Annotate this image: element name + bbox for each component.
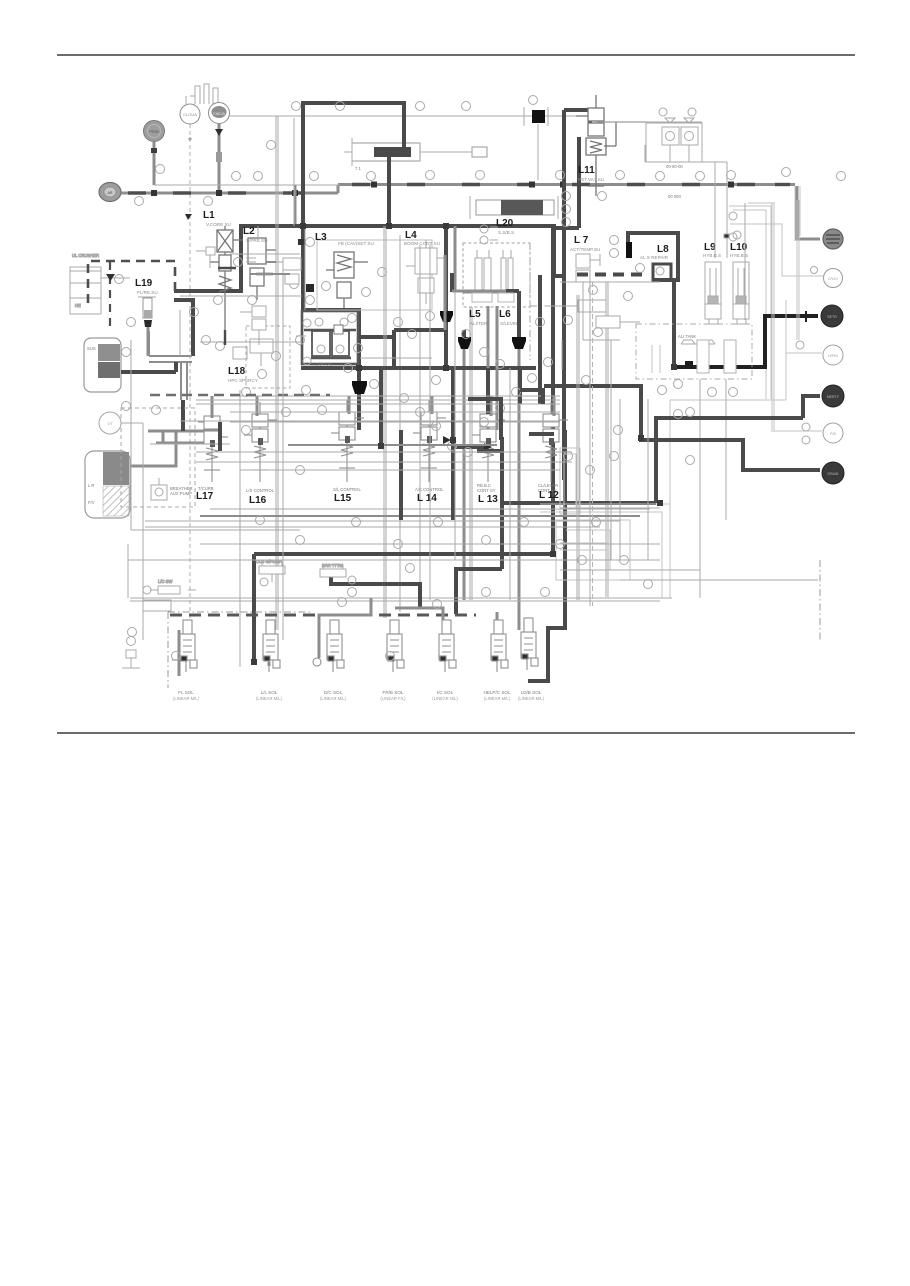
L15 column bbox=[331, 400, 364, 482]
pilot line y185 bbox=[154, 184, 340, 186]
L20 block bbox=[470, 196, 558, 244]
L13 side feeds bbox=[453, 445, 484, 449]
L19 pilot dashed drop bbox=[109, 262, 111, 332]
svg-text:L/C SW: L/C SW bbox=[158, 579, 172, 584]
main supply line y193 bbox=[121, 182, 795, 197]
gray manifold cluster bbox=[148, 420, 220, 443]
svg-text:L R: L R bbox=[88, 483, 94, 488]
drain circle dark bbox=[822, 462, 844, 484]
center wire mesh thin bbox=[143, 118, 726, 667]
svg-text:SUS: SUS bbox=[87, 346, 96, 351]
dash-dot boundary center bbox=[529, 243, 531, 360]
wire cylinder band drop bbox=[387, 153, 391, 225]
gray collector y445 bbox=[288, 444, 497, 446]
pump circle AR left bbox=[99, 183, 121, 202]
cv circle bbox=[730, 224, 843, 288]
svg-text:ACT/TEMP.SU: ACT/TEMP.SU bbox=[570, 247, 600, 252]
svg-text:AL.S REPAIR: AL.S REPAIR bbox=[640, 255, 669, 260]
L11 thick risers bbox=[562, 110, 566, 480]
junction dots bbox=[251, 223, 677, 665]
svg-text:FB (CAV)SET SU: FB (CAV)SET SU bbox=[338, 241, 374, 246]
thin vertical pairs center-right bbox=[577, 282, 611, 606]
wire CLOUA dashed drop bbox=[189, 124, 191, 618]
gray feeder staircases bbox=[179, 598, 519, 676]
svg-text:FL SOL: FL SOL bbox=[178, 690, 194, 695]
svg-text:L11: L11 bbox=[578, 165, 595, 176]
nested corner rects bottom right bbox=[540, 504, 670, 598]
svg-text:AR: AR bbox=[108, 191, 113, 195]
wire to setr circle bbox=[674, 316, 818, 367]
wire L8 down bbox=[672, 280, 676, 367]
bank enclosure bbox=[131, 340, 560, 530]
wire tank2 out bbox=[130, 431, 176, 466]
top pilot line B y117 bbox=[229, 116, 588, 212]
upper tank SUS bbox=[84, 338, 121, 392]
solenoid DC bbox=[313, 620, 344, 672]
svg-text:(LINEAR M/L): (LINEAR M/L) bbox=[484, 696, 511, 701]
svg-text:L 12: L 12 bbox=[539, 490, 559, 501]
lower tank LR bbox=[85, 451, 130, 518]
wire dark bottom main bbox=[254, 552, 553, 556]
svg-text:S.S/B.S: S.S/B.S bbox=[498, 230, 514, 235]
svg-text:AUX PUMP: AUX PUMP bbox=[170, 491, 192, 496]
svg-text:CLOUA: CLOUA bbox=[183, 112, 197, 117]
svg-text:L9: L9 bbox=[704, 242, 716, 253]
svg-text:L2: L2 bbox=[243, 226, 255, 237]
right thin enclosure bbox=[670, 200, 799, 560]
cap blob 2 bbox=[462, 330, 466, 337]
breather box bbox=[151, 478, 167, 500]
solenoid IC bbox=[439, 620, 456, 672]
grease circle bbox=[823, 229, 843, 249]
gray pipe pair left bbox=[149, 331, 192, 400]
svg-text:I/C SOL: I/C SOL bbox=[437, 690, 454, 695]
L7 thick dashed run bbox=[577, 273, 648, 277]
L2 valve column bbox=[248, 238, 276, 300]
L13 column bbox=[472, 402, 505, 482]
svg-text:L 7: L 7 bbox=[574, 235, 589, 246]
svg-text:MERT.F: MERT.F bbox=[827, 395, 840, 399]
column dark details bbox=[210, 436, 554, 447]
L13 dark feeder bbox=[486, 368, 490, 414]
wire header corner right bbox=[554, 229, 564, 276]
thick cross y330 bbox=[394, 330, 447, 368]
wire tank to header bbox=[121, 362, 176, 372]
wire PRB stem bbox=[153, 142, 156, 185]
wire center drop x303 to x359 bbox=[303, 310, 359, 368]
svg-text:PR/B: PR/B bbox=[149, 129, 159, 134]
accumulator L6 bbox=[501, 250, 513, 302]
svg-text:L4: L4 bbox=[405, 230, 417, 241]
svg-text:P/B: P/B bbox=[830, 432, 836, 436]
boom cylinder bbox=[344, 138, 487, 171]
crusher piping squiggle bbox=[186, 84, 218, 106]
svg-text:(LINEAR M/L): (LINEAR M/L) bbox=[173, 696, 200, 701]
mertf circle dark bbox=[822, 385, 844, 407]
svg-text:HYB.B.S: HYB.B.S bbox=[703, 253, 721, 258]
bottom dashed main bbox=[170, 614, 476, 617]
L17 dashed enclosure bbox=[121, 408, 195, 507]
pump circle CHEJA bbox=[209, 103, 230, 124]
solenoid FRB bbox=[387, 620, 404, 672]
svg-text:H/P.IN: H/P.IN bbox=[828, 354, 838, 358]
svg-text:HE: HE bbox=[75, 303, 81, 308]
extra dark stubs bbox=[218, 268, 273, 345]
port tick circles scatter bbox=[122, 192, 683, 661]
svg-text:L 14: L 14 bbox=[417, 493, 437, 504]
wire stair to mertf bbox=[656, 418, 803, 503]
aux valve bits near L2 bbox=[196, 247, 301, 345]
setr circle dark bbox=[821, 305, 843, 327]
svg-text:V.CORE SU: V.CORE SU bbox=[206, 222, 231, 227]
feeder staircases L13 L12 bbox=[468, 399, 501, 440]
svg-text:UL CRUSHER: UL CRUSHER bbox=[72, 253, 99, 258]
svg-text:L19: L19 bbox=[135, 278, 153, 289]
bank enclosure nested rects left bbox=[560, 448, 608, 550]
L/C SW symbol bbox=[143, 579, 196, 611]
svg-text:L5: L5 bbox=[469, 309, 481, 320]
bank cross wires bbox=[128, 396, 672, 601]
svg-text:ALI/TER: ALI/TER bbox=[470, 321, 488, 326]
L20 dashed region bbox=[463, 243, 530, 307]
svg-text:ALI TANK: ALI TANK bbox=[678, 334, 696, 339]
svg-text:VT: VT bbox=[107, 421, 113, 426]
L19 dashed enclosure bbox=[88, 261, 175, 303]
P/L SW symbol bbox=[296, 336, 306, 345]
L17 valve column bbox=[198, 404, 228, 482]
svg-text:L18: L18 bbox=[228, 366, 246, 377]
svg-text:FR/B SOL: FR/B SOL bbox=[383, 690, 404, 695]
extra main line ticks bbox=[310, 171, 846, 181]
thick feeders into bank bbox=[381, 275, 540, 446]
svg-text:HPC SPERCY: HPC SPERCY bbox=[228, 378, 258, 383]
svg-text:(LINEAR F/L): (LINEAR F/L) bbox=[380, 696, 406, 701]
svg-text:F/V: F/V bbox=[88, 500, 95, 505]
top right relief boxes bbox=[597, 108, 727, 258]
pump circle CLOUA bbox=[180, 104, 200, 124]
svg-text:L17: L17 bbox=[196, 491, 214, 502]
wire to mertf bbox=[803, 396, 820, 418]
pressure switch symbols bbox=[256, 559, 356, 586]
wire drop x295 bbox=[294, 185, 297, 228]
gray cross link bbox=[463, 291, 505, 294]
solenoid HELP bbox=[491, 620, 508, 672]
top rule bbox=[57, 54, 855, 56]
svg-text:SETR: SETR bbox=[827, 315, 837, 319]
svg-text:L20: L20 bbox=[496, 218, 514, 229]
svg-text:RET.VA?.SU: RET.VA?.SU bbox=[578, 177, 604, 182]
boundary dash-dot bottom bbox=[168, 560, 820, 688]
L14 column bbox=[413, 400, 446, 482]
hpin circle bbox=[823, 345, 843, 365]
svg-text:(LINEAR M/L): (LINEAR M/L) bbox=[518, 696, 545, 701]
svg-text:L 13: L 13 bbox=[478, 494, 498, 505]
cap blob 4 bbox=[357, 368, 361, 381]
L11 valve column bbox=[576, 95, 646, 196]
gray risers center bbox=[445, 255, 497, 430]
check block on line B bbox=[532, 110, 545, 123]
solenoid LL bbox=[263, 620, 280, 672]
grease feed corner bbox=[797, 186, 820, 239]
wire stair to drain bbox=[544, 386, 820, 470]
solenoid FL bbox=[172, 620, 197, 672]
svg-text:L3: L3 bbox=[315, 232, 327, 243]
pilot manifold block bbox=[302, 311, 358, 368]
wire long drop right bbox=[528, 430, 565, 681]
svg-text:L/S CONTROL: L/S CONTROL bbox=[246, 488, 275, 493]
ticks right bbox=[708, 388, 717, 397]
L16 column bbox=[244, 402, 277, 482]
mesh under L7 bbox=[545, 286, 640, 371]
wire L2 drop bbox=[174, 226, 241, 291]
cap blob 3 bbox=[517, 291, 521, 337]
wire CHEJA stem bbox=[218, 124, 221, 193]
svg-text:CHEJA: CHEJA bbox=[213, 112, 225, 116]
svg-text:BOOM CONT SU: BOOM CONT SU bbox=[404, 241, 440, 246]
svg-text:(LINEAR N/L): (LINEAR N/L) bbox=[432, 696, 458, 701]
thick vertical x303 bbox=[301, 101, 305, 310]
VT circle bbox=[99, 412, 143, 452]
svg-text:00 000: 00 000 bbox=[668, 194, 681, 199]
wire L19 out right bbox=[174, 300, 193, 356]
main long header y368 bbox=[301, 366, 536, 370]
L8 link header y291 bbox=[450, 273, 454, 292]
bottom rule bbox=[57, 732, 855, 734]
svg-text:L1: L1 bbox=[203, 210, 215, 221]
svg-text:DRAIN: DRAIN bbox=[828, 472, 839, 476]
L3 enclosure bbox=[317, 240, 432, 310]
hydraulic tank dash region bbox=[636, 324, 752, 379]
filter funnel bbox=[127, 297, 157, 356]
svg-text:L8: L8 bbox=[657, 244, 669, 255]
L8 box bbox=[610, 233, 679, 280]
svg-text:C/VLV: C/VLV bbox=[828, 277, 839, 281]
thick drop x183 bbox=[181, 400, 185, 431]
pilot dashed run left bbox=[150, 394, 330, 396]
L18 dashed region bbox=[246, 326, 290, 388]
thick feed loop T1 bbox=[303, 103, 404, 151]
wire main bottom header bbox=[502, 503, 656, 569]
cap blob 1 bbox=[440, 311, 453, 322]
svg-text:L16: L16 bbox=[249, 495, 267, 506]
L3 valve bbox=[326, 252, 368, 308]
svg-text:00-00-00: 00-00-00 bbox=[666, 164, 683, 169]
solenoid LDB bbox=[521, 618, 538, 670]
svg-text:L6: L6 bbox=[499, 309, 511, 320]
small corner component bottom-left bbox=[122, 637, 140, 669]
L9 L10 tall enclosure bbox=[729, 206, 771, 399]
extra mesh horizontals bbox=[128, 162, 818, 600]
thick main header y226 bbox=[239, 224, 556, 228]
pb circle bbox=[823, 423, 843, 443]
L18 group bbox=[233, 339, 273, 366]
crusher option stack bbox=[70, 253, 130, 314]
svg-text:S/PRE SU: S/PRE SU bbox=[246, 238, 267, 243]
thick drop x446 with cap bbox=[444, 226, 448, 311]
tank symbol bbox=[681, 340, 715, 360]
svg-text:LD/B SOL: LD/B SOL bbox=[521, 690, 542, 695]
svg-text:D/C SOL: D/C SOL bbox=[324, 690, 343, 695]
mid collectors bbox=[200, 515, 640, 517]
svg-text:FL/RE.SU: FL/RE.SU bbox=[137, 290, 158, 295]
L1 valve column bbox=[210, 226, 243, 330]
pump circle PRB bbox=[144, 121, 165, 142]
svg-text:(LINEAR M/L): (LINEAR M/L) bbox=[256, 696, 283, 701]
L12 column bbox=[535, 402, 568, 482]
svg-text:L/L SOL: L/L SOL bbox=[261, 690, 278, 695]
accumulator L5 bbox=[475, 250, 491, 302]
wire y584 bbox=[331, 575, 420, 608]
svg-text:CONT SY: CONT SY bbox=[477, 488, 496, 493]
L5 L6 assembly bbox=[455, 226, 519, 326]
svg-text:L15: L15 bbox=[334, 493, 352, 504]
svg-text:7 1: 7 1 bbox=[355, 166, 361, 171]
svg-text:S/LEVEL: S/LEVEL bbox=[500, 321, 519, 326]
svg-text:(LINEAR M/L): (LINEAR M/L) bbox=[320, 696, 347, 701]
ticks above pilot line right bbox=[135, 96, 791, 206]
svg-text:S/L CONTROL: S/L CONTROL bbox=[333, 487, 361, 492]
svg-text:HELP/C SOL: HELP/C SOL bbox=[483, 690, 511, 695]
